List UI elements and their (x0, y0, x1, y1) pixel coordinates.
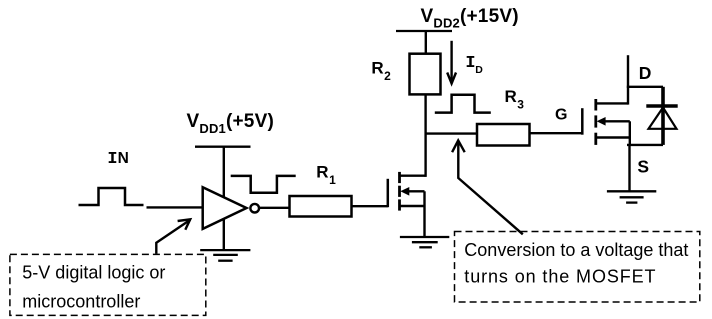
transistor Q1 channel segments (398, 172, 401, 211)
drain pulse waveform (435, 95, 491, 113)
ground below inverter (200, 250, 250, 261)
svg-text:N: N (118, 150, 129, 167)
power rail VDD1 bar (195, 146, 251, 148)
input pulse waveform IN (79, 188, 144, 205)
wire Q2 source stub (596, 136, 630, 138)
wire Q2 drain stub (596, 102, 628, 104)
svg-text:S: S (637, 156, 649, 176)
svg-text:Conversion to a voltage that: Conversion to a voltage that (464, 240, 688, 260)
inverter U1 output bubble (250, 204, 259, 213)
wire Q1 drain stub (400, 174, 426, 176)
wire R1 to Q1 gate (352, 205, 388, 207)
callout box: Conversion to a voltage that turns on the MOSFET (455, 232, 700, 303)
svg-text:5-V digital logic or: 5-V digital logic or (22, 262, 165, 282)
svg-text:I: I (465, 54, 475, 73)
wire source to body diode (627, 144, 663, 146)
wire Q1 source stub (400, 205, 425, 207)
current arrow ID (447, 41, 456, 84)
svg-text:turns on the MOSFET: turns on the MOSFET (464, 267, 656, 287)
svg-text:microcontroller: microcontroller (22, 291, 140, 311)
label VDD1 (+5V) (187, 111, 274, 136)
wire drain to body diode (627, 86, 663, 88)
wire input to inverter (147, 206, 203, 208)
inverted pulse waveform at inverter output (231, 176, 296, 193)
wire Q1 drain to R2 (drain node) (424, 94, 426, 176)
callout arrow to drain node (452, 140, 523, 234)
label VDD2 (+15V) (421, 6, 519, 31)
wire drain node to R3 (426, 132, 477, 134)
label S (637, 156, 649, 176)
label R1 (316, 163, 336, 187)
svg-text:G: G (555, 107, 567, 124)
wire inverter output to R1 (260, 207, 290, 209)
transistor Q2 body arrow (597, 117, 630, 126)
transistor Q1 body arrow (400, 187, 424, 196)
label R3 (505, 87, 525, 111)
wire R3 to Q2 gate (530, 132, 583, 134)
transistor Q2 channel segments (594, 99, 597, 145)
label D (639, 63, 652, 83)
resistor R3 (477, 124, 530, 146)
transistor Q2 gate bar (581, 108, 584, 135)
wire VDD1 rail to ground through inverter (223, 147, 225, 250)
wire Q2 drain terminal (627, 55, 629, 104)
label G (555, 107, 567, 124)
inverter U1 triangle (203, 187, 247, 229)
resistor R2 (410, 54, 441, 95)
wire Q1 source to ground (423, 191, 425, 237)
transistor Q1 gate bar (387, 179, 390, 207)
power rail VDD2 bar (396, 30, 452, 32)
resistor R1 (290, 196, 352, 217)
label ID (465, 54, 483, 76)
callout arrow to inverter (156, 219, 190, 253)
wire VDD2 rail to R2 (425, 31, 427, 54)
svg-text:D: D (475, 64, 483, 76)
label R2 (371, 59, 391, 83)
wire Q2 source to ground (628, 145, 630, 191)
wire Q2 body to source (629, 121, 631, 145)
label IN (107, 150, 128, 169)
ground below Q2 (607, 191, 656, 202)
callout box: 5-V digital logic or microcontroller (10, 254, 206, 315)
svg-text:I: I (107, 150, 117, 169)
svg-text:D: D (639, 63, 652, 83)
ground below Q1 (400, 237, 449, 247)
body diode D1 (646, 87, 677, 145)
